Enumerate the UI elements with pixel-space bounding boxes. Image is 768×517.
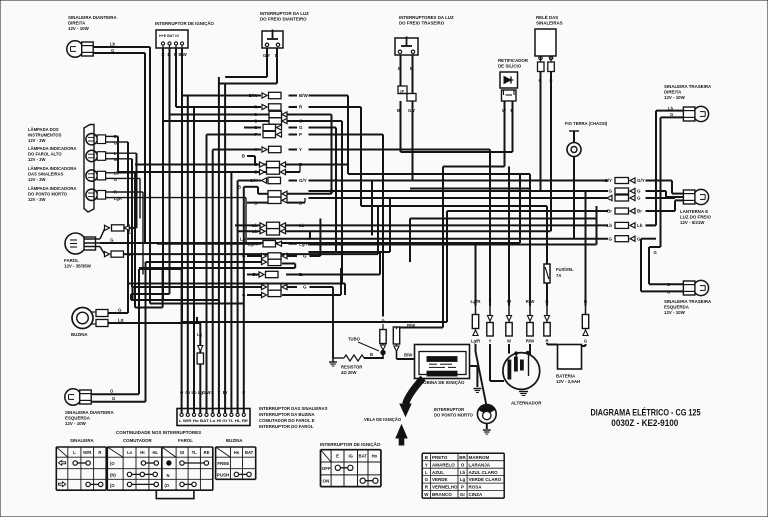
svg-text:W: W (424, 492, 429, 497)
svg-text:INTERRUPTOR DE IGNIÇÃO: INTERRUPTOR DE IGNIÇÃO (155, 21, 215, 26)
svg-text:Y: Y (254, 147, 257, 152)
svg-text:G: G (114, 140, 117, 145)
svg-text:LÂMPADA INDICADORA: LÂMPADA INDICADORA (28, 146, 76, 151)
svg-text:ESQUERDA: ESQUERDA (65, 416, 91, 421)
svg-text:RESISTOR: RESISTOR (341, 365, 362, 370)
svg-text:DO FAROL ALTO: DO FAROL ALTO (28, 152, 62, 157)
svg-text:LANTERNA E: LANTERNA E (680, 209, 708, 214)
svg-text:L: L (211, 390, 214, 395)
svg-text:AMARELO: AMARELO (430, 372, 448, 376)
svg-text:VERDE: VERDE (432, 477, 448, 482)
svg-text:LARANJA: LARANJA (469, 462, 491, 467)
svg-text:Y: Y (489, 339, 492, 344)
svg-text:R: R (98, 450, 101, 455)
svg-text:12V - 2,5AH: 12V - 2,5AH (556, 379, 580, 384)
svg-text:OFF: OFF (322, 466, 331, 471)
svg-text:BOBINA DE IGNIÇÃO: BOBINA DE IGNIÇÃO (420, 380, 465, 385)
svg-text:G: G (608, 236, 612, 241)
svg-text:DO PONTO MORTO: DO PONTO MORTO (28, 192, 68, 197)
svg-text:INTERRUPTOR: INTERRUPTOR (434, 407, 464, 412)
svg-text:E: E (336, 454, 339, 459)
svg-text:G: G (254, 119, 258, 124)
svg-text:LÂMPADA INDICADORA: LÂMPADA INDICADORA (28, 166, 76, 171)
svg-text:PRETO: PRETO (432, 455, 448, 460)
svg-text:W/R: W/R (83, 450, 91, 455)
svg-text:HI: HI (140, 450, 144, 455)
svg-text:Ho: Ho (372, 454, 378, 459)
svg-text:G: G (303, 285, 307, 290)
svg-text:RETIFICADOR: RETIFICADOR (498, 58, 529, 63)
svg-text:Lg/R: Lg/R (471, 339, 480, 344)
svg-text:GI: GI (180, 450, 184, 455)
svg-text:L: L (129, 230, 132, 235)
svg-text:12V - 3W: 12V - 3W (28, 157, 46, 162)
svg-text:INTERRUPTORES DA LUZ: INTERRUPTORES DA LUZ (399, 15, 454, 20)
svg-text:CONTINUIDADE NOS INTERRUPTORES: CONTINUIDADE NOS INTERRUPTORES (116, 430, 201, 435)
svg-text:P: P (461, 485, 464, 490)
svg-text:INSTRUMENTOS: INSTRUMENTOS (28, 133, 62, 138)
svg-text:FREE: FREE (217, 461, 229, 466)
svg-text:ALTERNADOR: ALTERNADOR (511, 401, 542, 406)
svg-text:B/W: B/W (407, 323, 415, 328)
svg-text:G: G (299, 125, 303, 130)
svg-text:G: G (299, 119, 303, 124)
svg-text:N: N (167, 473, 170, 478)
svg-text:(O: (O (110, 461, 115, 466)
svg-text:SINALEIRA TRASEIRA: SINALEIRA TRASEIRA (664, 84, 712, 89)
svg-text:RE: RE (204, 450, 210, 455)
svg-text:BAT: BAT (245, 450, 254, 455)
svg-text:Lb: Lb (637, 223, 643, 228)
svg-text:G/Y: G/Y (299, 178, 307, 183)
svg-text:ROSA: ROSA (469, 485, 483, 490)
svg-text:SINALEIRA: SINALEIRA (70, 438, 94, 443)
svg-text:0030Z - KE2-9100: 0030Z - KE2-9100 (611, 418, 678, 428)
svg-text:INTERRUPTOR DA LUZ: INTERRUPTOR DA LUZ (260, 11, 309, 16)
svg-text:Br: Br (299, 272, 304, 277)
svg-text:CINZA: CINZA (469, 492, 483, 497)
svg-text:G: G (637, 196, 641, 201)
svg-text:B: B (397, 108, 400, 113)
svg-text:H+E BAT IG: H+E BAT IG (159, 34, 179, 38)
svg-text:BUZINA: BUZINA (71, 332, 88, 337)
svg-text:G: G (114, 157, 117, 162)
svg-text:Lg/R: Lg/R (299, 241, 310, 246)
svg-text:DAS SINALEIRAS: DAS SINALEIRAS (28, 172, 64, 177)
svg-text:12V - 35/35W: 12V - 35/35W (64, 264, 92, 269)
svg-text:G: G (654, 250, 657, 255)
svg-text:B/W: B/W (404, 353, 412, 358)
svg-text:B: B (398, 66, 401, 71)
svg-text:FUSÍVEL: FUSÍVEL (556, 267, 574, 272)
svg-text:G: G (637, 236, 641, 241)
svg-text:BATERIA: BATERIA (556, 374, 576, 379)
svg-text:G: G (118, 307, 122, 312)
svg-text:Gr: Gr (460, 492, 466, 497)
svg-text:Lo: Lo (127, 450, 133, 455)
svg-text:12V - 3W: 12V - 3W (28, 177, 46, 182)
svg-text:4Ω 20W: 4Ω 20W (341, 370, 357, 375)
svg-text:G/Y: G/Y (250, 178, 258, 183)
svg-text:G/W: G/W (202, 390, 210, 395)
svg-text:G/Y: G/Y (408, 108, 415, 113)
svg-text:TUBO: TUBO (348, 337, 361, 342)
svg-text:Lg: Lg (118, 317, 124, 322)
svg-text:12V - 3W: 12V - 3W (28, 197, 46, 202)
svg-text:B/W: B/W (249, 93, 259, 98)
svg-text:Lg: Lg (197, 332, 203, 337)
svg-text:INTERRUPTOR DA BUZINA: INTERRUPTOR DA BUZINA (259, 412, 315, 417)
svg-text:G: G (303, 254, 307, 259)
svg-text:VELA DE IGNIÇÃO: VELA DE IGNIÇÃO (364, 417, 402, 422)
svg-text:G/Y: G/Y (637, 178, 645, 183)
svg-text:DIREITA: DIREITA (664, 90, 682, 95)
svg-text:INTERRUPTOR DE IGNIÇÃO: INTERRUPTOR DE IGNIÇÃO (320, 441, 381, 447)
svg-text:PUSH: PUSH (217, 472, 230, 477)
svg-text:W: W (507, 339, 511, 344)
svg-text:DO FREIO DIANTEIRO: DO FREIO DIANTEIRO (260, 17, 307, 22)
svg-text:VERDE CLARO: VERDE CLARO (469, 477, 502, 482)
svg-text:VERMELHO: VERMELHO (432, 485, 458, 490)
svg-text:R: R (545, 339, 548, 344)
svg-text:Lb: Lb (299, 223, 305, 228)
svg-text:COMUTADOR: COMUTADOR (123, 438, 153, 443)
svg-text:G: G (584, 339, 587, 344)
svg-text:Lb: Lb (460, 470, 466, 475)
svg-text:SINALEIRAS: SINALEIRAS (536, 21, 563, 26)
svg-text:SINALEIRA DIANTEIRA: SINALEIRA DIANTEIRA (65, 410, 114, 415)
svg-text:BRANCO: BRANCO (432, 492, 452, 497)
svg-text:B: B (410, 66, 413, 71)
svg-text:12V - 10W: 12V - 10W (68, 26, 90, 31)
svg-text:LÂMPADA DOS: LÂMPADA DOS (28, 127, 59, 132)
svg-text:Y: Y (425, 462, 428, 467)
svg-text:INTERRUPTOR DO FAROL: INTERRUPTOR DO FAROL (259, 424, 314, 429)
svg-text:BR: BR (459, 455, 466, 460)
svg-text:DIAGRAMA ELÉTRICO - CG 125: DIAGRAMA ELÉTRICO - CG 125 (591, 407, 701, 417)
svg-text:IG: IG (348, 454, 352, 459)
svg-text:BAT: BAT (359, 454, 368, 459)
svg-text:Lb: Lb (191, 390, 197, 395)
svg-text:L: L (73, 450, 76, 455)
svg-text:G: G (254, 125, 258, 130)
svg-text:12V - 5/21W: 12V - 5/21W (680, 220, 705, 225)
svg-text:G: G (114, 177, 117, 182)
svg-text:G: G (608, 189, 612, 194)
svg-text:Br: Br (223, 390, 228, 395)
svg-text:7A: 7A (556, 273, 561, 278)
svg-text:P: P (381, 319, 384, 324)
svg-text:LgR: LgR (114, 196, 122, 201)
svg-text:AMARELO: AMARELO (432, 462, 455, 467)
svg-text:SINALEIRA DIANTEIRA: SINALEIRA DIANTEIRA (68, 15, 117, 20)
svg-text:B/W: B/W (299, 93, 309, 98)
svg-text:Lb: Lb (110, 42, 116, 47)
svg-text:SINALEIRA TRASEIRA: SINALEIRA TRASEIRA (664, 299, 712, 304)
svg-text:O: O (461, 462, 465, 467)
svg-text:DO PONTO MORTO: DO PONTO MORTO (434, 413, 474, 418)
svg-text:AZUL CLARO: AZUL CLARO (469, 470, 499, 475)
svg-text:BUZINA: BUZINA (226, 438, 243, 443)
svg-text:Y: Y (299, 147, 302, 152)
svg-text:FAROL: FAROL (178, 438, 193, 443)
svg-text:12V - 10W: 12V - 10W (65, 421, 87, 426)
svg-text:DIREITA: DIREITA (68, 21, 86, 26)
svg-text:LÂMPADA INDICADORA: LÂMPADA INDICADORA (28, 186, 76, 191)
svg-text:Lb: Lb (252, 223, 258, 228)
svg-text:12V - 3W: 12V - 3W (28, 138, 46, 143)
svg-text:(O: (O (110, 483, 115, 488)
svg-text:B: B (370, 352, 373, 357)
svg-text:P: P (242, 390, 245, 395)
svg-text:HL: HL (153, 450, 159, 455)
svg-text:G: G (111, 48, 114, 53)
svg-text:COMUTADOR DO FAROL E: COMUTADOR DO FAROL E (259, 418, 315, 423)
svg-text:Br: Br (252, 272, 257, 277)
svg-text:P: P (299, 132, 302, 137)
svg-text:G: G (637, 189, 641, 194)
svg-text:P: P (254, 132, 257, 137)
svg-text:FIO TERRA (CHASSI): FIO TERRA (CHASSI) (565, 121, 608, 126)
svg-text:LUZ DO FREIO: LUZ DO FREIO (680, 215, 712, 220)
svg-text:Lb: Lb (252, 229, 258, 234)
svg-text:R/W: R/W (526, 339, 534, 344)
svg-text:Lg/R: Lg/R (248, 241, 259, 246)
svg-text:INTERRUPTOR DAS SINALEIRAS: INTERRUPTOR DAS SINALEIRAS (259, 406, 328, 411)
svg-text:G: G (254, 112, 258, 117)
svg-text:Ho: Ho (234, 450, 240, 455)
svg-text:DE SILÍCIO: DE SILÍCIO (498, 64, 522, 69)
svg-text:G: G (110, 237, 114, 242)
svg-text:FAROL: FAROL (64, 258, 79, 263)
svg-text:G: G (425, 477, 429, 482)
svg-text:Gr: Gr (185, 390, 190, 395)
svg-text:(N): (N) (110, 472, 116, 477)
svg-text:L: L (425, 470, 428, 475)
svg-text:AZUL: AZUL (432, 470, 444, 475)
svg-text:12V - 10W: 12V - 10W (664, 310, 686, 315)
svg-text:TL: TL (192, 450, 198, 455)
svg-text:Lb: Lb (607, 223, 613, 228)
svg-text:ESQUERDA: ESQUERDA (664, 305, 690, 310)
svg-text:RELÉ DAS: RELÉ DAS (536, 15, 558, 20)
svg-text:DO FREIO TRASEIRO: DO FREIO TRASEIRO (399, 21, 445, 26)
svg-text:L W/R Ho BAT Lo HI GI TL HL RE: L W/R Ho BAT Lo HI GI TL HL RE (179, 419, 249, 423)
svg-text:ON: ON (323, 479, 330, 484)
svg-text:G: G (112, 396, 115, 401)
svg-text:Lg: Lg (460, 477, 466, 482)
svg-text:2P: 2P (400, 90, 405, 94)
svg-text:VERMELHO: VERMELHO (429, 358, 449, 362)
svg-text:MARROM: MARROM (469, 455, 490, 460)
svg-text:12V - 10W: 12V - 10W (664, 95, 686, 100)
svg-text:(O: (O (165, 483, 170, 488)
svg-text:Y: Y (218, 390, 221, 395)
svg-text:Br: Br (637, 209, 642, 214)
